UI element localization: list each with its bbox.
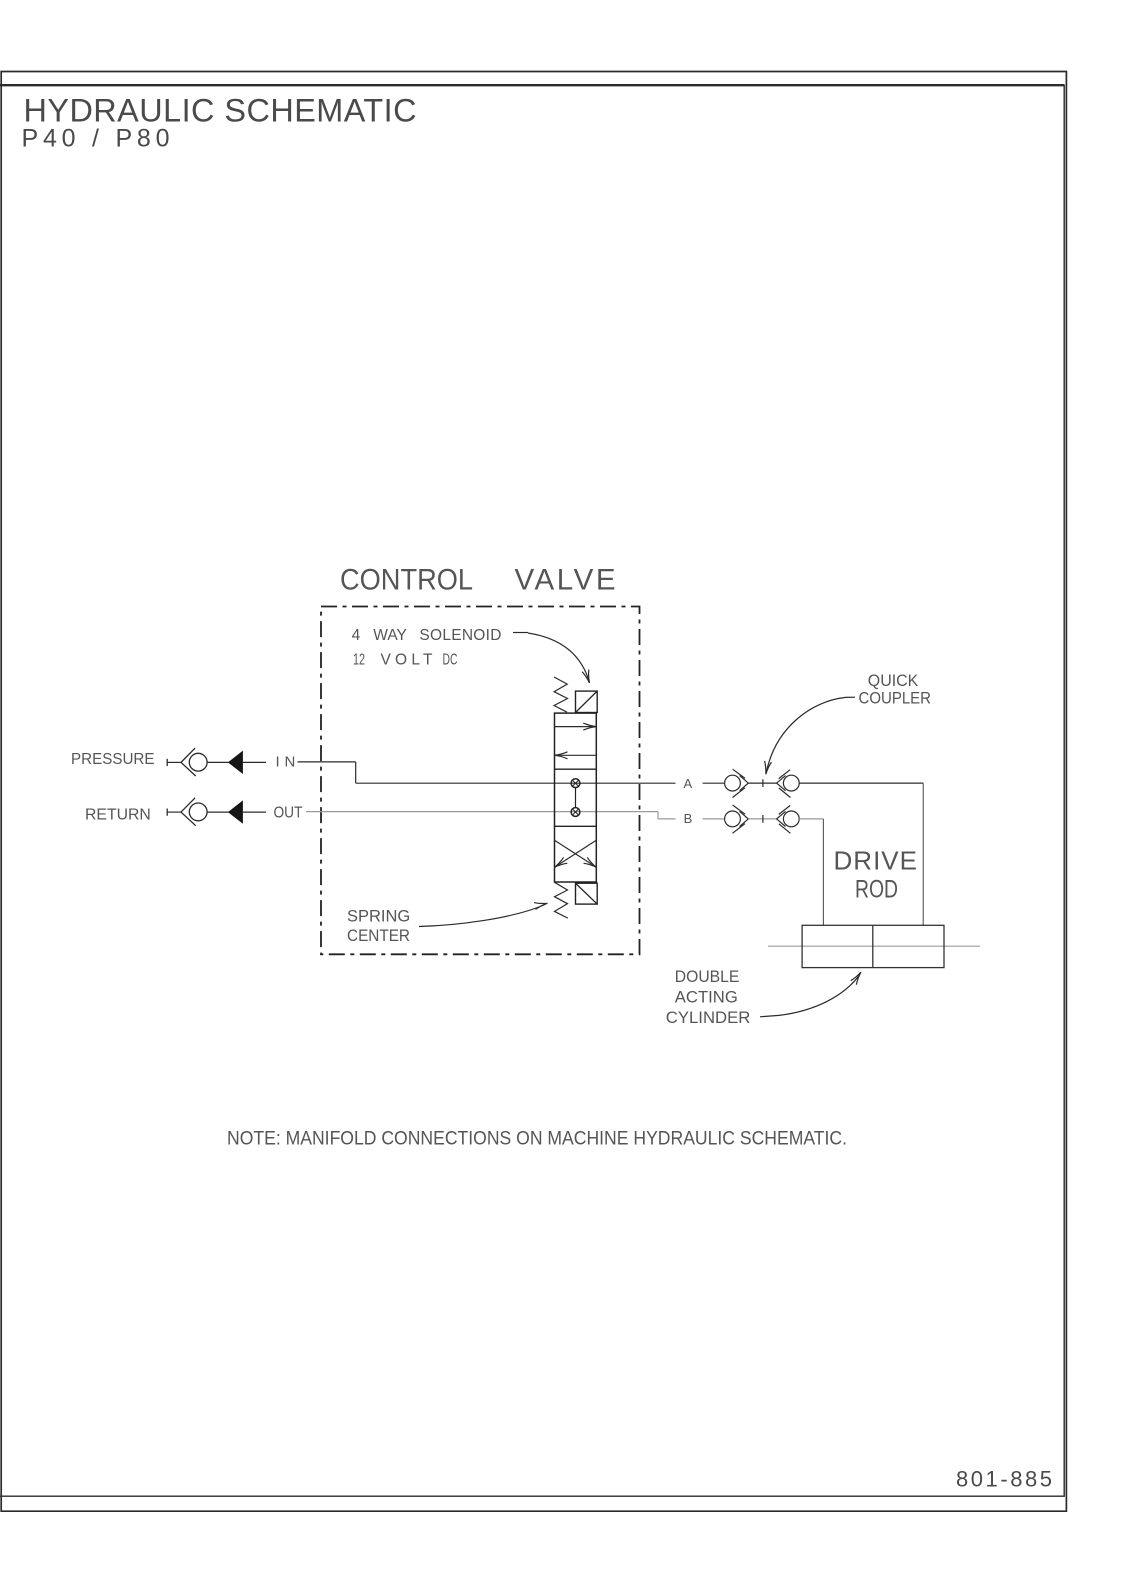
quick coupler left half circle bbox=[725, 811, 741, 827]
svg-text:RETURN: RETURN bbox=[85, 807, 151, 824]
control valve dash-dot boundary box bbox=[321, 607, 640, 955]
svg-text:PRESSURE: PRESSURE bbox=[71, 751, 155, 768]
svg-text:CONTROL: CONTROL bbox=[340, 563, 473, 596]
spring top bbox=[554, 677, 567, 712]
leader arrow to solenoid bbox=[513, 632, 528, 634]
wire IN to step bbox=[298, 761, 356, 763]
valve crossed arrow to bottom-left bbox=[555, 840, 597, 867]
quick coupler left half circle bbox=[725, 775, 741, 791]
wire B coupler rightward (gray) bbox=[799, 818, 823, 820]
wire between coupler halves bbox=[748, 818, 776, 820]
quick coupler right half circle bbox=[783, 811, 799, 827]
pressure line coupler chevron bbox=[181, 748, 196, 776]
svg-text:VALVE: VALVE bbox=[515, 563, 616, 596]
svg-text:4: 4 bbox=[352, 627, 361, 644]
wire A coupler to right riser bbox=[799, 782, 923, 784]
leader dash for quick coupler bbox=[845, 696, 855, 698]
valve blocked port T bbox=[571, 808, 580, 817]
solenoid box bottom bbox=[576, 883, 598, 904]
wire coupler to check triangle bbox=[207, 811, 229, 813]
svg-text:SOLENOID: SOLENOID bbox=[419, 627, 501, 644]
wire B step to label bbox=[658, 818, 676, 820]
svg-text:CYLINDER: CYLINDER bbox=[666, 1008, 751, 1027]
wire A-line valve run bbox=[356, 782, 676, 784]
svg-text:A: A bbox=[684, 776, 693, 791]
valve body rectangle bbox=[555, 713, 597, 882]
leader arrow to spring bbox=[419, 905, 545, 927]
return port tick bbox=[166, 809, 168, 816]
svg-text:DOUBLE: DOUBLE bbox=[675, 967, 740, 986]
quick coupler right half slashes bbox=[779, 806, 791, 834]
quick coupler right half circle bbox=[783, 775, 799, 791]
svg-text:SPRING: SPRING bbox=[347, 908, 410, 926]
pressure check triangle (filled) bbox=[229, 752, 243, 773]
leader arrow to coupler junction bbox=[767, 698, 846, 772]
wire riser from A line down bbox=[922, 783, 924, 925]
valve port connector bbox=[575, 788, 577, 808]
valve section divider upper bbox=[555, 768, 597, 770]
wire step down bbox=[355, 762, 357, 783]
coupler junction tick bbox=[762, 815, 764, 823]
quick coupler left half chevron bbox=[740, 776, 749, 791]
svg-text:HYDRAULIC SCHEMATIC: HYDRAULIC SCHEMATIC bbox=[24, 92, 417, 128]
wire A label to coupler bbox=[703, 782, 725, 784]
pressure line coupler circle bbox=[189, 753, 207, 771]
svg-text:WAY: WAY bbox=[373, 627, 407, 644]
wire triangle to OUT bbox=[242, 811, 266, 813]
solenoid box top bbox=[576, 691, 598, 712]
svg-text:ROD: ROD bbox=[855, 876, 898, 904]
return check triangle (filled) bbox=[229, 801, 243, 822]
svg-text:DRIVE: DRIVE bbox=[834, 846, 918, 876]
svg-text:ACTING: ACTING bbox=[675, 987, 738, 1006]
quick coupler left half chevron bbox=[740, 811, 749, 826]
piston rod line (gray) bbox=[768, 945, 980, 947]
double acting cylinder body bbox=[802, 925, 944, 967]
leader dash for cylinder bbox=[760, 1015, 779, 1016]
wire OUT B-line (gray) bbox=[306, 811, 658, 813]
return line coupler chevron bbox=[181, 798, 196, 826]
svg-text:NOTE: MANIFOLD CONNECTIONS ON: NOTE: MANIFOLD CONNECTIONS ON MACHINE HY… bbox=[227, 1129, 847, 1150]
svg-text:QUICK: QUICK bbox=[868, 671, 919, 690]
svg-text:CENTER: CENTER bbox=[347, 927, 410, 945]
valve flow arrow left bbox=[555, 754, 597, 756]
wire pressure tick to coupler bbox=[167, 761, 181, 763]
valve blocked port P bbox=[571, 779, 580, 788]
quick coupler right half chevron bbox=[777, 811, 786, 826]
quick coupler right half slashes bbox=[779, 770, 791, 798]
svg-text:B: B bbox=[684, 811, 693, 826]
valve crossed arrow to bottom-right bbox=[555, 840, 597, 867]
leader arrow to cylinder bbox=[779, 975, 860, 1015]
svg-text:COUPLER: COUPLER bbox=[859, 688, 932, 707]
wire B label to coupler (gray) bbox=[703, 818, 725, 820]
wire riser from B line down bbox=[822, 819, 824, 925]
wire between coupler halves bbox=[748, 782, 776, 784]
svg-text:VOLT: VOLT bbox=[381, 651, 434, 668]
quick coupler left half slashes bbox=[733, 769, 746, 797]
quick coupler left half slashes bbox=[733, 805, 746, 833]
return line coupler circle bbox=[189, 803, 207, 821]
svg-text:DC: DC bbox=[443, 651, 458, 668]
pressure port tick bbox=[166, 759, 168, 766]
wire B step down bbox=[657, 812, 659, 819]
wire triangle to IN bbox=[242, 761, 266, 763]
coupler junction tick bbox=[762, 779, 764, 787]
svg-text:12: 12 bbox=[353, 651, 365, 668]
svg-text:P40 / P80: P40 / P80 bbox=[22, 124, 170, 152]
quick coupler right half chevron bbox=[777, 776, 786, 791]
wire return tick to coupler bbox=[167, 811, 181, 813]
valve flow arrow right bbox=[555, 726, 597, 728]
spring bottom bbox=[555, 882, 568, 918]
svg-text:OUT: OUT bbox=[274, 805, 303, 822]
svg-text:IN: IN bbox=[276, 754, 296, 771]
wire coupler to check triangle bbox=[207, 761, 229, 763]
cylinder piston bbox=[872, 925, 874, 967]
valve section divider lower bbox=[555, 825, 597, 827]
